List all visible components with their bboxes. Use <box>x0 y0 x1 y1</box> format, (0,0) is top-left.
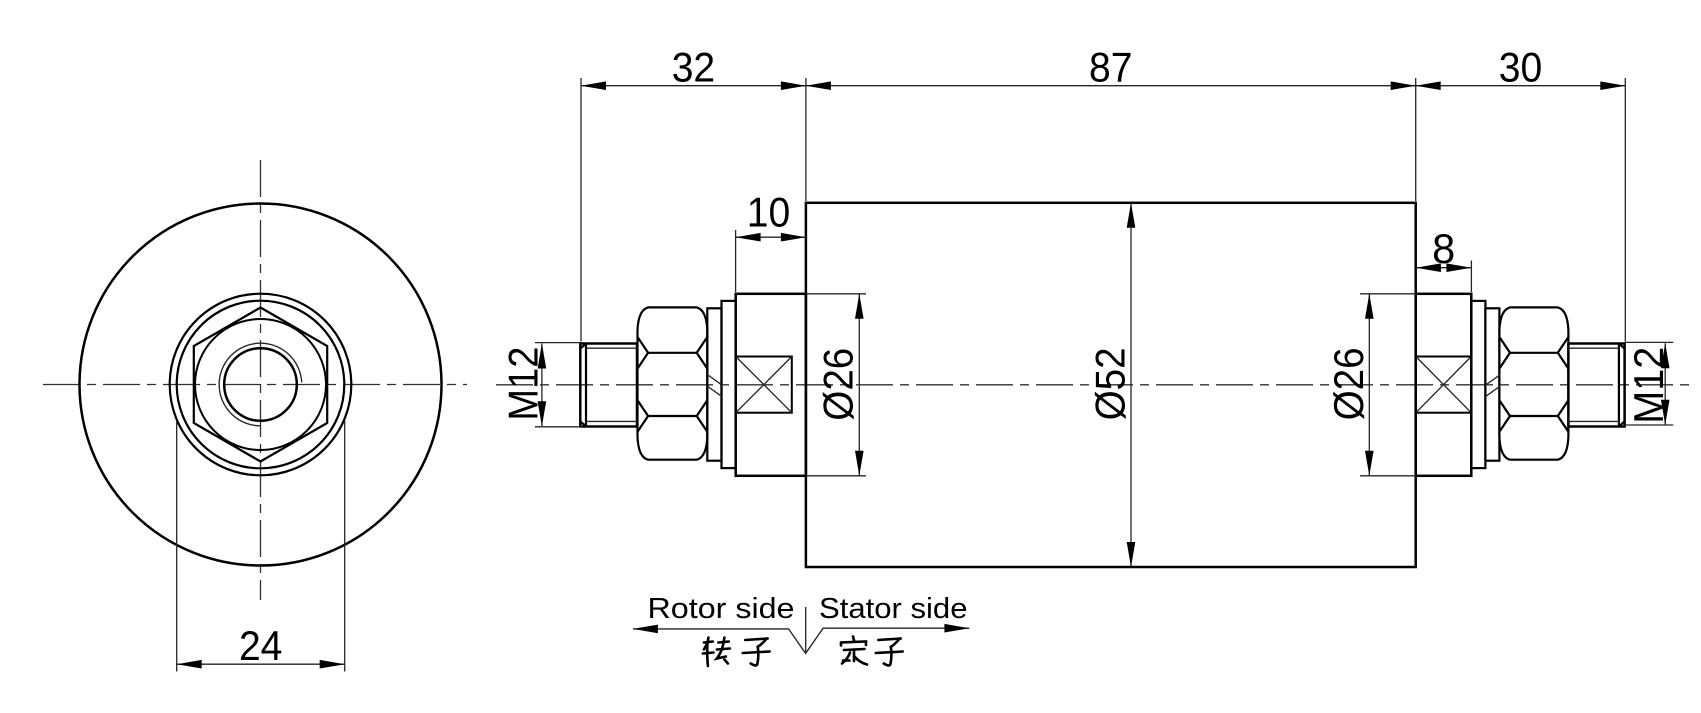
svg-text:87: 87 <box>1089 43 1133 90</box>
svg-text:Rotor side: Rotor side <box>648 593 795 625</box>
svg-text:M12: M12 <box>1625 347 1672 424</box>
svg-text:M12: M12 <box>500 347 547 421</box>
svg-text:8: 8 <box>1432 225 1455 272</box>
svg-text:Stator side: Stator side <box>819 593 968 625</box>
svg-text:Ø52: Ø52 <box>1087 347 1134 420</box>
svg-text:10: 10 <box>747 189 791 236</box>
svg-text:24: 24 <box>239 622 283 669</box>
svg-text:Ø26: Ø26 <box>1325 347 1372 420</box>
svg-text:32: 32 <box>672 43 716 90</box>
svg-text:Ø26: Ø26 <box>814 348 861 421</box>
svg-text:30: 30 <box>1499 43 1543 90</box>
